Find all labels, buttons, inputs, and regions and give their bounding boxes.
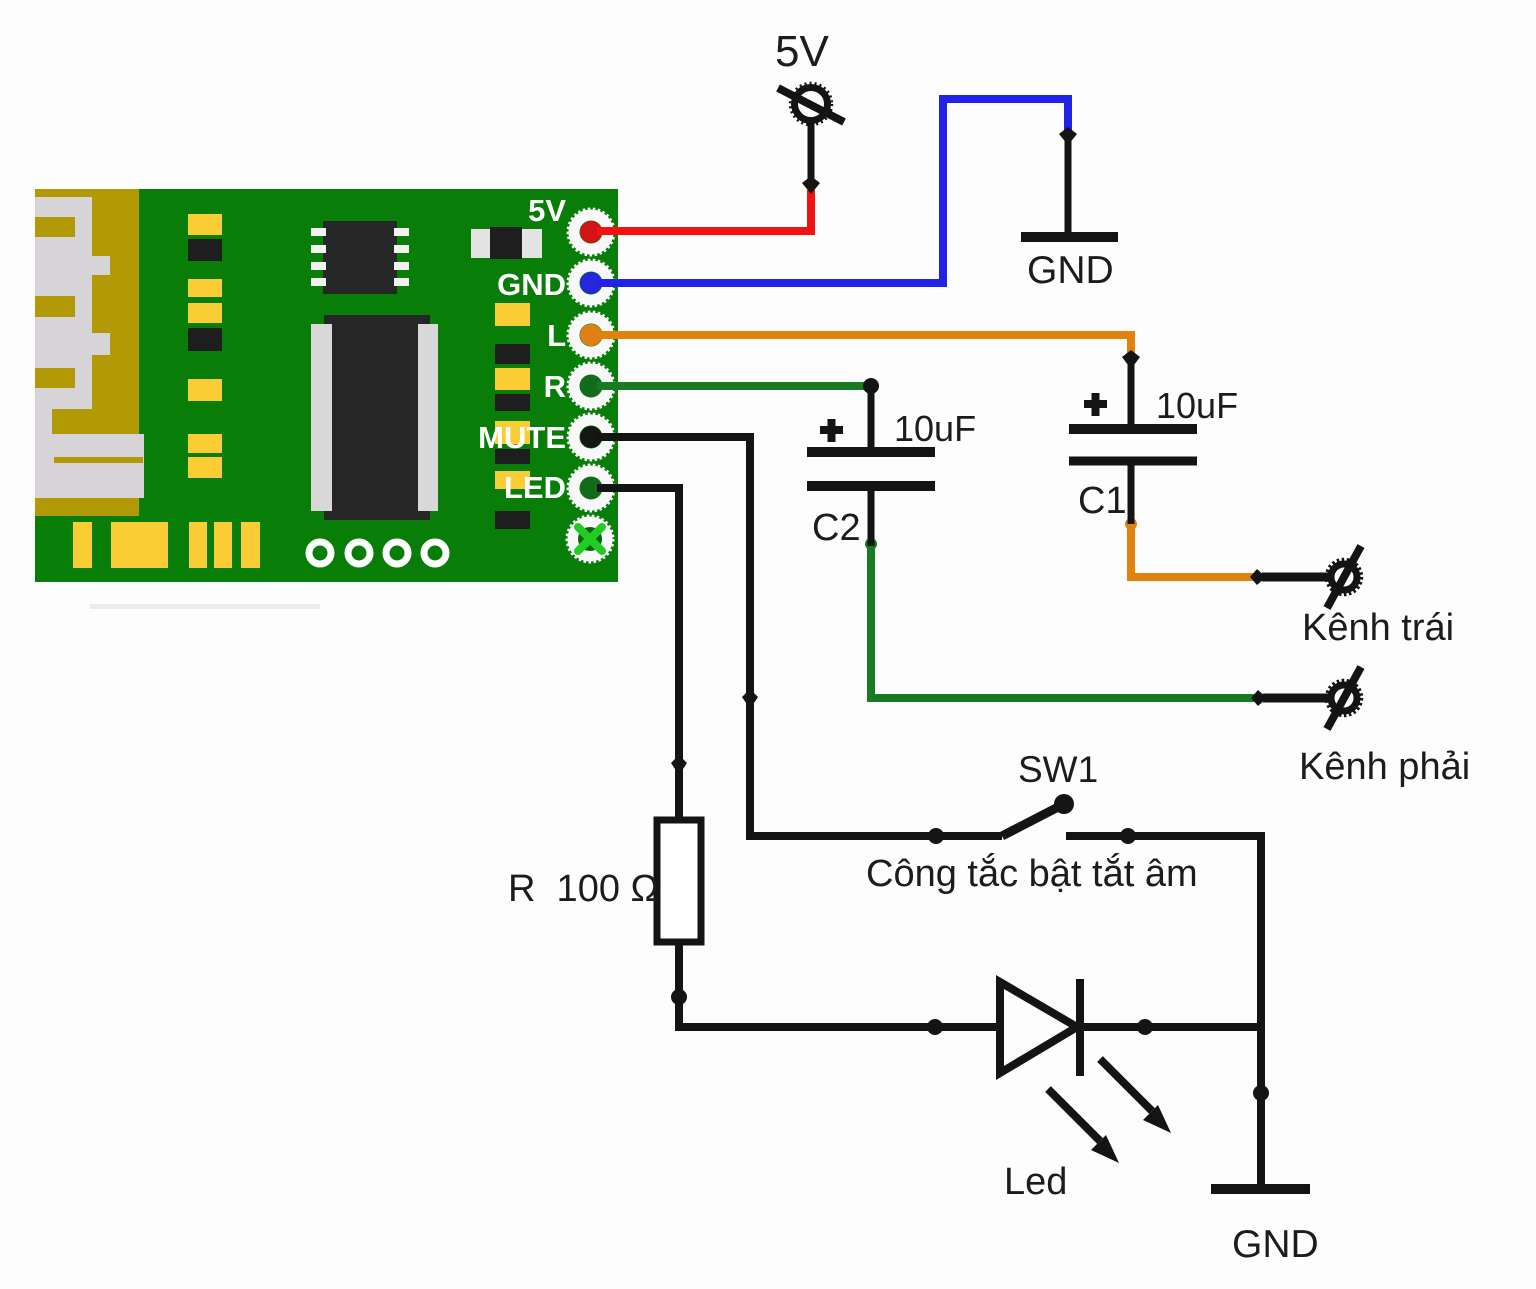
antenna olive line in feed xyxy=(54,457,143,463)
wire red 5V pad to supply xyxy=(597,190,811,231)
antenna gray step 1 xyxy=(92,256,110,275)
bottom via ring 1 xyxy=(309,542,331,564)
svg-text:5V: 5V xyxy=(775,27,829,76)
wire green C2 to jack R xyxy=(871,544,1259,698)
junction dot right rail xyxy=(1253,1085,1269,1101)
wire green R pad to C2 xyxy=(597,382,871,390)
left SMD column xyxy=(188,214,222,478)
green bendpoint dot xyxy=(865,538,877,550)
antenna meander gray spine xyxy=(35,197,92,409)
green endpoint arrow right xyxy=(1251,690,1267,706)
pad R xyxy=(568,363,614,409)
wire black ground stub xyxy=(1065,140,1072,237)
wire black jack L stub xyxy=(1262,573,1329,582)
junction dot R/C2 xyxy=(863,378,879,394)
svg-text:SW1: SW1 xyxy=(1018,749,1098,790)
junction dot LED anode rail xyxy=(927,1019,943,1035)
svg-text:10uF: 10uF xyxy=(894,408,976,449)
capacitor C2 top lead xyxy=(868,386,875,450)
LED D1 cathode bar xyxy=(1076,979,1084,1076)
svg-text:C2: C2 xyxy=(812,507,861,549)
antenna finger olive 3 xyxy=(35,368,75,388)
capacitor C1 bottom lead xyxy=(1128,463,1135,524)
capacitor C1 top lead xyxy=(1128,363,1135,427)
jack symbol Kenh phai xyxy=(1327,667,1362,729)
pad LED xyxy=(568,465,614,511)
blue endpoint arrow xyxy=(1059,127,1077,145)
bottom via ring 3 xyxy=(386,542,408,564)
antenna gray feed block xyxy=(35,434,144,498)
ground symbol GND top xyxy=(1021,232,1118,242)
antenna gray step 2 xyxy=(92,333,110,355)
wire black resistor to LED anode xyxy=(679,944,996,1027)
pad GND xyxy=(568,260,614,306)
svg-text:Kênh trái: Kênh trái xyxy=(1302,607,1454,649)
LED D1 triangle xyxy=(1000,982,1077,1073)
supply endpoint arrow xyxy=(802,176,820,194)
bottom via ring 2 xyxy=(348,542,370,564)
svg-text:Led: Led xyxy=(1004,1161,1067,1203)
pad MUTE xyxy=(568,414,614,460)
antenna area (olive) xyxy=(35,189,139,516)
C2 plus sign xyxy=(820,419,843,442)
pad X (unused) xyxy=(567,516,613,562)
switch SW1 pivot dot xyxy=(1054,794,1074,814)
wire orange L pad to C1 xyxy=(597,335,1131,360)
IC U1 main chip xyxy=(311,315,438,520)
board substrate xyxy=(35,189,618,582)
svg-text:MUTE: MUTE xyxy=(478,420,566,455)
orange endpoint arrow right xyxy=(1250,569,1266,585)
C1 plus sign xyxy=(1084,393,1107,416)
ground symbol GND bottom xyxy=(1211,1184,1310,1194)
switch SW1 lever xyxy=(1002,805,1062,836)
bottom via ring 4 xyxy=(424,542,446,564)
bendpoint arrow on MUTE wire xyxy=(742,689,758,709)
wire black MUTE pad to switch xyxy=(597,437,1002,836)
junction dot switch left xyxy=(928,828,944,844)
svg-text:GND: GND xyxy=(1027,249,1114,292)
junction dot below resistor xyxy=(671,989,687,1005)
pad L xyxy=(568,312,614,358)
wire black switch right to GND bottom xyxy=(1066,836,1261,1189)
board shadow xyxy=(90,604,320,609)
power symbol 5V supply xyxy=(778,84,844,125)
wire black LED pad to resistor xyxy=(597,488,679,818)
svg-text:LED: LED xyxy=(504,470,566,505)
IC U2 8-pin xyxy=(311,221,409,294)
junction dot LED cathode rail xyxy=(1137,1019,1153,1035)
resistor R body xyxy=(657,820,701,942)
capacitor C2 bottom lead xyxy=(868,488,875,546)
bendpoint arrow on LED wire xyxy=(671,755,687,775)
wire black LED cathode to GND rail xyxy=(1082,1023,1261,1031)
orange endpoint arrow xyxy=(1122,350,1140,369)
wire black jack R stub xyxy=(1263,694,1329,703)
bottom copper pads yellow xyxy=(73,522,260,568)
svg-text:Công tắc bật tắt âm: Công tắc bật tắt âm xyxy=(866,852,1198,895)
LED arrow 2 xyxy=(1048,1089,1119,1163)
LED arrow 1 xyxy=(1100,1059,1171,1133)
svg-text:R 100 Ω: R 100 Ω xyxy=(508,868,659,910)
antenna gray lower-left xyxy=(35,409,52,434)
middle SMD column xyxy=(495,303,530,489)
svg-text:GND: GND xyxy=(1232,1223,1319,1266)
svg-text:GND: GND xyxy=(497,267,566,302)
PCB module board xyxy=(35,189,618,609)
orange bendpoint dot xyxy=(1125,518,1137,530)
capacitor C2 plates xyxy=(807,447,935,457)
wire orange C1 to jack L xyxy=(1131,524,1258,577)
wire blue GND pad to ground xyxy=(597,99,1068,283)
SMD resistor near 5V pad xyxy=(471,227,542,259)
svg-text:L: L xyxy=(547,318,566,353)
capacitor C1 plates xyxy=(1069,424,1197,434)
junction dot switch right xyxy=(1120,828,1136,844)
antenna finger olive 2 xyxy=(35,296,75,317)
wire black supply stub xyxy=(808,118,815,188)
jack symbol Kenh trai xyxy=(1327,546,1362,608)
svg-text:R: R xyxy=(544,369,566,404)
svg-text:Kênh phải: Kênh phải xyxy=(1299,746,1470,788)
svg-text:C1: C1 xyxy=(1078,480,1127,522)
svg-text:5V: 5V xyxy=(528,193,566,228)
antenna finger olive 1 xyxy=(35,217,75,237)
pad 5V xyxy=(568,209,614,255)
svg-text:10uF: 10uF xyxy=(1156,385,1238,426)
